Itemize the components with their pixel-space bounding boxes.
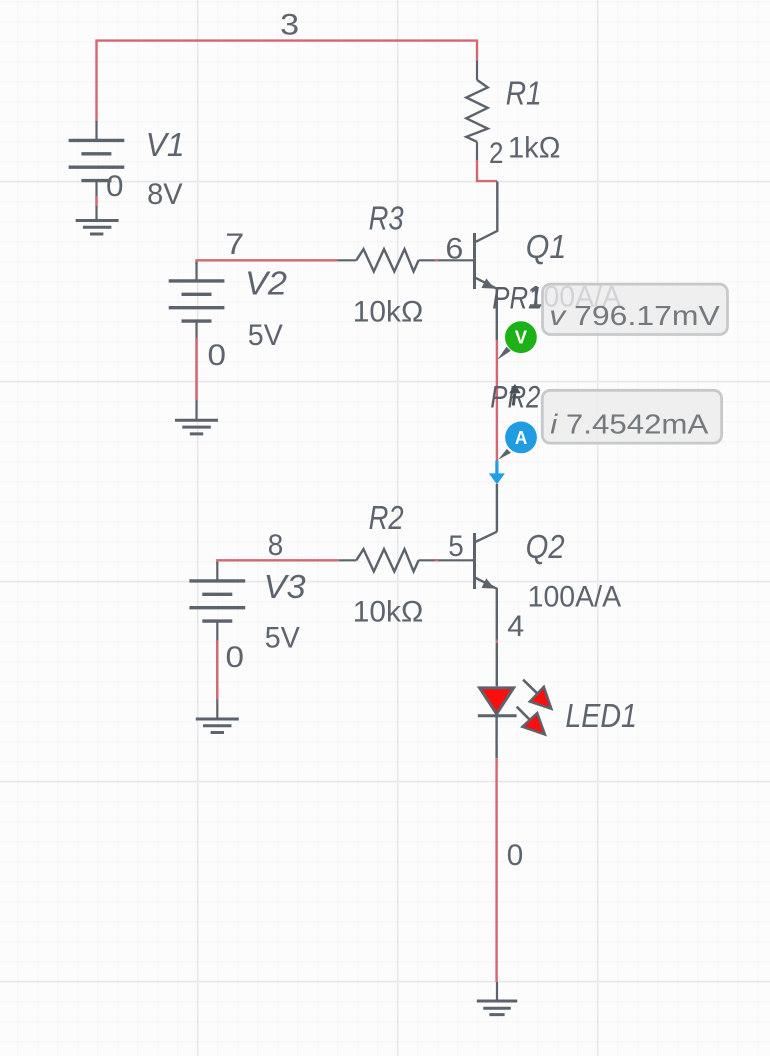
svg-text:0: 0 <box>208 339 227 372</box>
battery V3 <box>189 562 245 719</box>
wire node 2 (jog) <box>477 160 497 181</box>
svg-text:7: 7 <box>225 228 244 261</box>
battery V1 <box>69 121 125 220</box>
resistor R3 <box>337 249 473 271</box>
wire red dot node 6 <box>435 259 439 261</box>
Q2 collector pin <box>496 484 498 532</box>
wire red dot V1 bottom <box>95 196 97 206</box>
PR2 direction arrow glyph <box>509 384 520 394</box>
svg-text:0: 0 <box>226 641 245 674</box>
svg-text:R1: R1 <box>506 75 542 112</box>
svg-text:V1: V1 <box>146 126 185 163</box>
svg-text:LED1: LED1 <box>565 697 637 734</box>
PR2 probe circle (A) <box>505 422 537 454</box>
svg-text:A: A <box>515 427 527 448</box>
LED1 emission arrow 2 <box>517 707 531 721</box>
battery V2 <box>169 262 225 420</box>
PR1 probe circle (V) <box>505 321 537 353</box>
svg-text:5V: 5V <box>265 621 300 654</box>
LED1 cathode pin <box>495 716 497 759</box>
svg-text:5: 5 <box>448 530 464 563</box>
svg-text:10kΩ: 10kΩ <box>353 295 424 328</box>
svg-text:R3: R3 <box>369 200 405 237</box>
PR2 leader <box>498 449 511 460</box>
svg-text:V2: V2 <box>245 264 287 301</box>
ground (bottom) <box>477 1001 517 1015</box>
wire node 7 <box>197 260 338 264</box>
ground (V2) <box>175 420 218 434</box>
Q1 emitter arrow <box>482 278 495 288</box>
wire node 3 (top) <box>97 41 478 122</box>
LED1 anode pin <box>496 643 498 687</box>
svg-text:6: 6 <box>445 233 463 266</box>
ground pin (bottom) <box>496 982 498 1001</box>
svg-text:R2: R2 <box>369 499 404 536</box>
svg-text:5V: 5V <box>248 319 283 352</box>
svg-text:3: 3 <box>280 9 299 42</box>
transistor Q1 <box>475 182 498 341</box>
resistor R2 <box>339 549 474 571</box>
svg-text:2: 2 <box>489 137 504 170</box>
probe box PR1 <box>543 284 728 334</box>
svg-text:8: 8 <box>268 529 284 562</box>
PR1 leader <box>497 347 511 360</box>
svg-text:i 7.4542mA: i 7.4542mA <box>550 408 709 439</box>
svg-text:0: 0 <box>106 170 124 203</box>
svg-text:100A/A: 100A/A <box>528 581 622 614</box>
wire node 0 (bottom) <box>495 758 497 982</box>
svg-text:v 796.17mV: v 796.17mV <box>549 300 720 331</box>
Q2 emitter arrow <box>482 578 495 588</box>
LED1 emission arrow 1 <box>523 680 537 694</box>
svg-text:PR1: PR1 <box>492 280 542 316</box>
svg-text:V3: V3 <box>264 568 307 605</box>
ground (V1) <box>76 221 119 235</box>
LED1 body <box>480 688 514 714</box>
svg-text:1kΩ: 1kΩ <box>508 132 561 165</box>
wire node 8 <box>217 560 338 564</box>
wire red segment V2 bottom <box>195 338 197 400</box>
wire red dot node 5 <box>435 559 439 561</box>
svg-text:Q2: Q2 <box>526 528 565 565</box>
LED1 cathode bar <box>478 714 517 717</box>
ground (V3) <box>196 719 239 733</box>
PR2 blue current arrow <box>495 461 498 474</box>
wire Q1 emitter to Q2 collector <box>496 340 498 461</box>
svg-text:Q1: Q1 <box>526 228 567 265</box>
svg-text:10kΩ: 10kΩ <box>353 595 424 628</box>
resistor R1 <box>466 61 487 161</box>
probe box PR2 <box>542 390 721 443</box>
svg-text:8V: 8V <box>147 178 183 211</box>
svg-text:V: V <box>515 326 528 347</box>
wire red dot node 4 <box>496 640 498 643</box>
svg-text:4: 4 <box>507 610 524 643</box>
svg-text:0: 0 <box>507 839 524 872</box>
wire red segment V3 bottom <box>216 640 218 699</box>
transistor Q2 <box>475 532 497 641</box>
